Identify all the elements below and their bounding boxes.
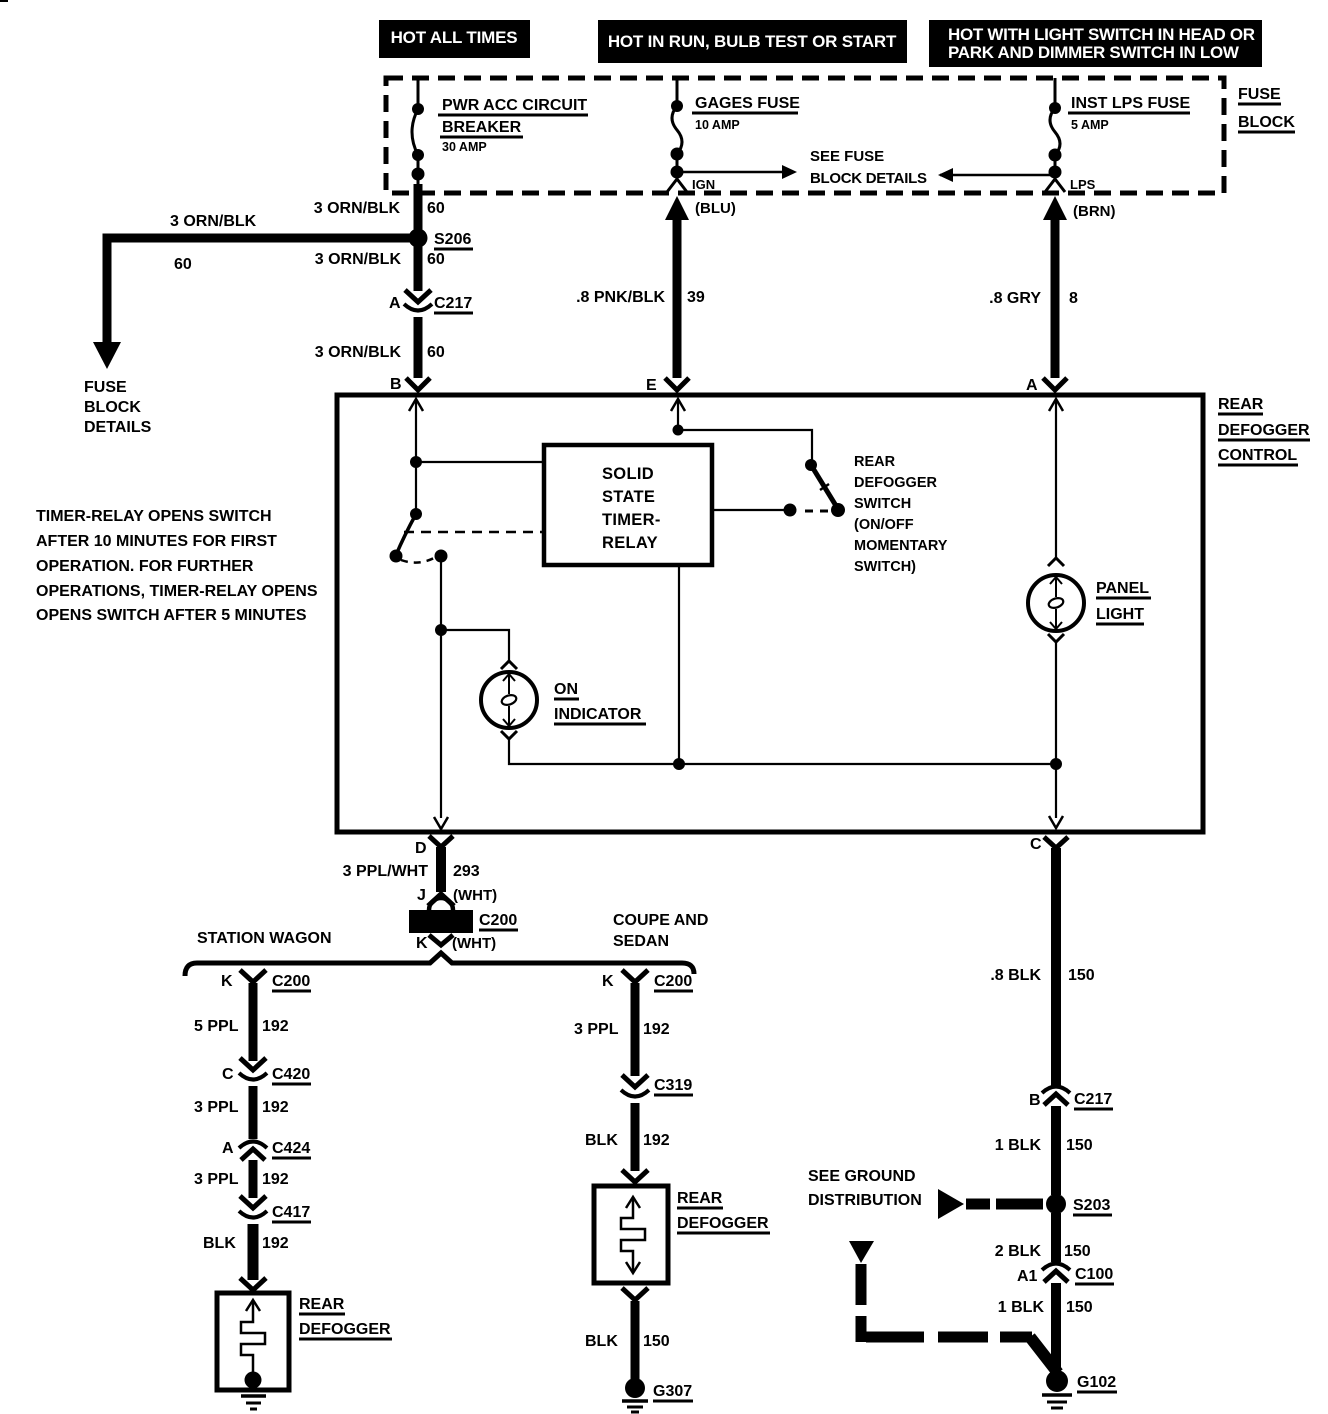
svg-text:D: D [415,840,427,857]
solid state timer-relay box [544,445,712,565]
svg-text:C: C [222,1066,234,1083]
svg-text:REAR: REAR [677,1190,723,1207]
wire E entry down [677,399,679,430]
fuse block label [1238,86,1295,132]
svg-text:SWITCH): SWITCH) [854,559,916,575]
arrow from ground distribution [938,1189,964,1219]
node junction B feed [410,456,422,468]
svg-text:3 PPL: 3 PPL [194,1099,239,1116]
label 3 PPL/WHT 293 [343,863,480,880]
ground symbol under wagon defogger [241,1396,266,1409]
label BLK 192 (coupe) [585,1132,670,1149]
svg-text:DEFOGGER: DEFOGGER [299,1321,391,1338]
svg-text:C424: C424 [272,1140,310,1157]
fuse block details text [84,379,152,436]
svg-text:C200: C200 [272,973,310,990]
wire S203 to C100 [1051,1213,1061,1262]
svg-text:HOT WITH LIGHT SWITCH IN HEAD: HOT WITH LIGHT SWITCH IN HEAD OR [948,25,1255,44]
inst lps fuse element [1050,108,1060,155]
svg-text:3 ORN/BLK: 3 ORN/BLK [315,344,402,361]
terminal C chevron [1030,836,1068,853]
wire K to C420 [249,983,258,1061]
wire S206 branch left [103,234,418,243]
breaker mid dot [412,149,424,161]
terminal B chevron [390,376,430,393]
gages fuse label [692,95,800,132]
svg-text:AFTER 10 MINUTES FOR FIRST: AFTER 10 MINUTES FOR FIRST [36,533,277,550]
inst lps fuse wire [1054,155,1057,178]
svg-text:192: 192 [643,1021,670,1038]
wire C217 to S203 [1051,1106,1061,1195]
label 2 BLK 150 [995,1243,1091,1260]
wire contact down to D [440,556,442,818]
ground G307 [622,1378,693,1412]
wire breaker to S206 [414,184,423,240]
svg-text:DEFOGGER: DEFOGGER [1218,422,1310,439]
arrow from inst lps fuse to details (left) [938,168,1053,182]
svg-text:S203: S203 [1073,1197,1110,1214]
svg-text:.8 GRY: .8 GRY [989,290,1041,307]
dashed ground wire vertical [856,1264,867,1342]
brace split to branches [185,953,694,976]
svg-text:FUSE: FUSE [1238,86,1281,103]
node bus junction panel [1050,758,1062,770]
svg-text:TIMER-RELAY OPENS SWITCH: TIMER-RELAY OPENS SWITCH [36,508,272,525]
svg-text:PARK AND DIMMER SWITCH IN LOW: PARK AND DIMMER SWITCH IN LOW [948,43,1240,62]
dashed mechanical link to timer-relay [404,531,544,534]
connector C217 pin B [1029,1087,1113,1110]
svg-text:E: E [646,377,657,394]
svg-text:G307: G307 [653,1383,692,1400]
label 3 ORN/BLK 60 (mid) [315,251,445,268]
svg-text:LIGHT: LIGHT [1096,606,1144,623]
svg-text:(WHT): (WHT) [453,887,497,904]
header HOT ALL TIMES [379,20,530,58]
label .8 GRY 8 [989,290,1078,307]
connector C424 pin A [222,1140,311,1160]
rear defogger label (coupe) [677,1190,770,1233]
svg-text:192: 192 [643,1132,670,1149]
rear defogger control box [337,395,1203,832]
arrow to fuse block details [93,342,121,369]
wire junction to timer-relay box [416,461,544,463]
dashed ground wire horizontal [866,1332,1032,1343]
label BLK 192 [203,1235,289,1252]
inst lps fuse label [1068,95,1190,132]
svg-text:B: B [390,376,402,393]
svg-text:J: J [417,887,426,904]
wire to on indicator [441,630,509,661]
wire C217 to B [414,317,423,378]
wire timer-relay bottom to bus [678,565,680,764]
svg-text:SOLID: SOLID [602,465,654,483]
wire contact to timer-relay box [712,509,790,511]
label 3 PPL 192 (coupe) [574,1021,670,1038]
wire C424 to C417 [249,1160,258,1198]
arrow down at box bottom (D) [434,817,448,829]
svg-text:3 PPL/WHT: 3 PPL/WHT [343,863,429,880]
svg-text:K: K [602,973,614,990]
svg-text:MOMENTARY: MOMENTARY [854,538,948,554]
gages fuse bottom dot [671,166,684,179]
entry A arrow inside box [1049,399,1063,411]
svg-text:C420: C420 [272,1066,310,1083]
svg-text:5 PPL: 5 PPL [194,1018,239,1035]
svg-text:(BRN): (BRN) [1073,203,1116,220]
svg-text:DEFOGGER: DEFOGGER [854,475,938,491]
svg-text:C200: C200 [654,973,692,990]
svg-text:B: B [1029,1092,1041,1109]
node E feed [673,425,684,436]
svg-text:10 AMP: 10 AMP [695,118,740,132]
wire defogger to G307 [631,1301,640,1379]
header HOT IN RUN, BULB TEST OR START [598,20,907,63]
svg-text:OPERATION. FOR FURTHER: OPERATION. FOR FURTHER [36,558,254,575]
splice S206 [409,229,474,250]
svg-text:ON: ON [554,681,578,698]
svg-text:2 BLK: 2 BLK [995,1243,1042,1260]
wire B entry down [415,399,417,514]
svg-text:150: 150 [1064,1243,1091,1260]
LPS terminal [1045,177,1096,192]
svg-text:OPENS SWITCH AFTER 5 MINUTES: OPENS SWITCH AFTER 5 MINUTES [36,607,307,624]
arrow down at box bottom (C) [1049,816,1063,828]
svg-text:39: 39 [687,289,705,306]
svg-text:3 ORN/BLK: 3 ORN/BLK [170,213,257,230]
breaker top dot [412,103,424,115]
svg-text:BLK: BLK [585,1132,618,1149]
connector C217 pin A [389,290,473,313]
svg-text:C319: C319 [654,1077,692,1094]
chevron below defogger (coupe) [622,1288,648,1300]
svg-text:1 BLK: 1 BLK [995,1137,1042,1154]
on indicator label [554,681,646,724]
gages fuse top dot [671,100,683,112]
see fuse block details text [810,148,927,187]
svg-text:GAGES FUSE: GAGES FUSE [695,95,800,112]
svg-text:BLOCK: BLOCK [84,399,141,416]
svg-text:(WHT): (WHT) [452,935,496,952]
wire panel light to bus [1055,643,1057,818]
wire LPS (BRN) down to A with up arrow [1043,196,1116,378]
inst lps fuse mid dot [1049,149,1062,162]
svg-text:.8 PNK/BLK: .8 PNK/BLK [576,289,665,306]
splice S203 [1046,1194,1112,1215]
svg-text:BREAKER: BREAKER [442,119,522,136]
svg-text:STATE: STATE [602,488,655,506]
inst lps fuse wire from top [1054,78,1057,108]
wire C to C217 [1051,848,1061,1086]
label BLK 150 (coupe) [585,1333,670,1350]
svg-text:C417: C417 [272,1204,310,1221]
IGN terminal [667,177,715,192]
svg-text:K: K [221,973,233,990]
svg-text:INST LPS FUSE: INST LPS FUSE [1071,95,1190,112]
label 3 PPL 192 [194,1099,289,1116]
wire C319 to defogger [631,1103,640,1171]
svg-text:150: 150 [1066,1137,1093,1154]
timer switch blade [396,514,416,555]
node blade tip [390,550,403,563]
wire diagonal into G102 [1030,1337,1058,1373]
svg-text:150: 150 [1066,1299,1093,1316]
breaker curve [412,109,418,155]
svg-text:C200: C200 [479,912,517,929]
svg-text:REAR: REAR [854,454,896,470]
arrow from ground distribution (down) [849,1241,874,1263]
label 3 ORN/BLK 60 (top) [314,200,445,217]
label 1 BLK 150 [995,1137,1093,1154]
svg-text:STATION WAGON: STATION WAGON [197,930,332,947]
node switch contact [435,550,448,563]
svg-text:C: C [1030,836,1042,853]
label 3 PPL 192 (lower) [194,1171,289,1188]
svg-text:5 AMP: 5 AMP [1071,118,1109,132]
rear defogger control label [1218,396,1310,465]
svg-text:OPERATIONS, TIMER-RELAY OPENS: OPERATIONS, TIMER-RELAY OPENS [36,583,318,600]
svg-text:BLK: BLK [585,1333,618,1350]
svg-text:REAR: REAR [299,1296,345,1313]
svg-text:CONTROL: CONTROL [1218,447,1297,464]
svg-text:60: 60 [427,251,445,268]
wire C100 to G102 [1051,1283,1061,1372]
label 1 BLK 150 (lower) [998,1299,1093,1316]
svg-text:3 PPL: 3 PPL [194,1171,239,1188]
wire D to J [436,847,446,892]
connector C420 pin C [222,1058,311,1084]
label 3 ORN/BLK 60 (lower) [315,344,445,361]
entry B arrow inside box [409,399,423,411]
svg-text:INDICATOR: INDICATOR [554,706,642,723]
node switch contact to timer [784,504,797,517]
inst lps fuse top dot [1049,102,1061,114]
svg-text:C217: C217 [434,295,472,312]
connector J [417,887,497,906]
svg-text:DETAILS: DETAILS [84,419,152,436]
connector K C200 (coupe) [602,970,693,991]
breaker label [438,97,588,154]
label 5 PPL 192 [194,1018,289,1035]
rear defogger grid (coupe) [594,1186,668,1283]
entry E arrow inside box [671,399,685,411]
timer note text block [36,508,318,624]
circuit breaker PWR ACC 30A: wire from top [417,78,420,109]
wire E feed to switch [678,430,812,464]
svg-text:IGN: IGN [692,177,715,192]
svg-text:A: A [389,295,401,312]
svg-text:BLOCK: BLOCK [1238,114,1295,131]
see ground distribution label [808,1168,922,1209]
label .8 BLK 150 [990,967,1094,984]
svg-text:SEE GROUND: SEE GROUND [808,1168,916,1185]
node switch pivot [410,508,422,520]
svg-text:8: 8 [1069,290,1078,307]
node indicator tap [435,624,447,636]
svg-text:G102: G102 [1077,1374,1116,1391]
svg-text:S206: S206 [434,231,471,248]
svg-text:SEDAN: SEDAN [613,933,669,950]
node defogger switch top [805,459,817,471]
svg-text:192: 192 [262,1099,289,1116]
label .8 PNK/BLK 39 [576,289,705,306]
wire S206 to C217 [414,246,423,291]
svg-text:LPS: LPS [1070,177,1096,192]
terminal D chevron [415,836,453,857]
connector K C200 (station wagon) [221,970,311,991]
gages fuse wire from top [676,78,679,106]
node blade end [831,503,845,517]
svg-text:K: K [416,935,428,952]
rear defogger switch label [854,454,948,575]
svg-text:.8 BLK: .8 BLK [990,967,1041,984]
svg-text:60: 60 [427,200,445,217]
connector K below C200 [416,935,496,952]
svg-text:1 BLK: 1 BLK [998,1299,1045,1316]
inst lps fuse bottom dot [1049,166,1062,179]
rear defogger label (wagon) [299,1296,392,1339]
defogger switch blade [811,465,838,509]
svg-text:DISTRIBUTION: DISTRIBUTION [808,1192,922,1209]
dashed switch arc [401,558,434,563]
svg-text:SWITCH: SWITCH [854,496,911,512]
wire K to C319 [631,983,640,1076]
label COUPE AND SEDAN [613,912,708,950]
wire on indicator bottom [509,740,1056,764]
svg-text:192: 192 [262,1235,289,1252]
blade tick [820,484,829,490]
svg-text:192: 192 [262,1018,289,1035]
svg-text:COUPE AND: COUPE AND [613,912,708,929]
breaker bottom dot [412,168,425,181]
wire A entry down to panel light [1055,399,1057,559]
svg-text:FUSE: FUSE [84,379,127,396]
svg-text:60: 60 [427,344,445,361]
terminal A chevron [1026,377,1067,394]
svg-text:HOT IN RUN, BULB TEST OR START: HOT IN RUN, BULB TEST OR START [608,32,897,51]
dashed gap to contact [800,510,828,513]
svg-text:TIMER-: TIMER- [602,511,661,529]
connector C100 pin A1 [1017,1264,1114,1286]
wire IGN (BLU) down to E with up arrow [665,196,736,378]
svg-text:BLK: BLK [203,1235,236,1252]
svg-text:SEE FUSE: SEE FUSE [810,148,884,165]
svg-text:3 ORN/BLK: 3 ORN/BLK [314,200,401,217]
svg-text:DEFOGGER: DEFOGGER [677,1215,769,1232]
chevron above defogger (wagon) [240,1278,266,1290]
wire left branch down [103,234,112,346]
wire C420 to C424 [249,1086,258,1139]
breaker wire [417,155,420,186]
svg-text:(BLU): (BLU) [695,200,736,217]
node bus junction timer [673,758,685,770]
connector C319 [621,1075,693,1097]
svg-text:A: A [222,1140,234,1157]
svg-text:BLOCK DETAILS: BLOCK DETAILS [810,170,927,187]
gages fuse element [672,106,682,154]
gages fuse mid dot [671,148,684,161]
connector C417 [239,1196,311,1222]
svg-text:150: 150 [643,1333,670,1350]
panel light lamp [1028,558,1084,642]
svg-text:PWR ACC CIRCUIT: PWR ACC CIRCUIT [442,97,587,114]
svg-text:A: A [1026,377,1038,394]
svg-text:RELAY: RELAY [602,534,658,552]
dashed wire to S203 [966,1199,1043,1210]
svg-text:C217: C217 [1074,1091,1112,1108]
fuse block dashed border [386,78,1224,193]
gages fuse wire [676,154,679,178]
svg-text:A1: A1 [1017,1268,1038,1285]
svg-text:3 PPL: 3 PPL [574,1021,619,1038]
svg-text:(ON/OFF: (ON/OFF [854,517,914,533]
svg-text:293: 293 [453,863,480,880]
rear defogger grid (station wagon) [217,1293,289,1390]
terminal E chevron [646,377,689,394]
chevron above defogger (coupe) [622,1170,648,1182]
header HOT WITH LIGHT SWITCH IN HEAD OR PARK AND DIMMER SWITCH IN LOW [929,20,1262,67]
ground G102 [1042,1370,1117,1408]
svg-text:3 ORN/BLK: 3 ORN/BLK [315,251,402,268]
svg-text:PANEL: PANEL [1096,580,1149,597]
svg-text:C100: C100 [1075,1266,1113,1283]
svg-text:REAR: REAR [1218,396,1264,413]
speck top-left [0,0,8,2]
svg-text:150: 150 [1068,967,1095,984]
wire C417 to defogger [248,1224,259,1280]
panel light label [1096,580,1151,624]
on indicator lamp [481,661,537,739]
svg-text:192: 192 [262,1171,289,1188]
svg-text:HOT ALL TIMES: HOT ALL TIMES [391,28,518,47]
connector C200 body [409,898,518,933]
arrow to see fuse block details (right) [677,165,797,179]
svg-text:30 AMP: 30 AMP [442,140,487,154]
svg-text:60: 60 [174,256,192,273]
